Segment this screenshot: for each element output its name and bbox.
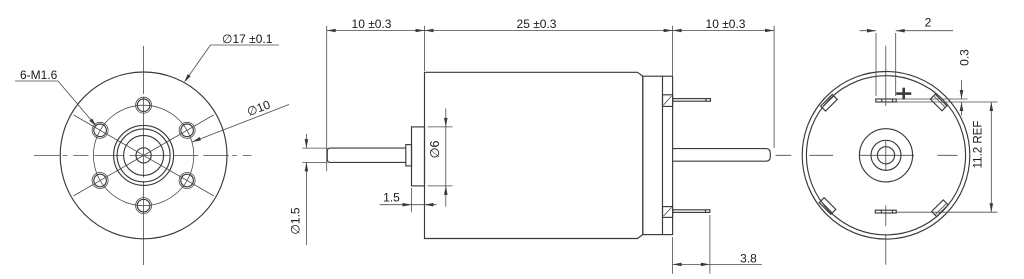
screw hole 30deg: [181, 124, 194, 137]
screw hole 150deg: [94, 124, 107, 137]
bottom terminal bracket: [663, 207, 673, 218]
svg-text:11.2 REF: 11.2 REF: [973, 121, 985, 169]
screw hole 330deg: [181, 174, 194, 187]
label D10 leader: [192, 105, 289, 143]
D1.5 dimension: [303, 147, 328, 149]
tab 316deg: [932, 200, 949, 217]
svg-text:∅17 ±0.1: ∅17 ±0.1: [222, 32, 273, 46]
top terminal slot: [876, 99, 896, 102]
bearing boss circle: [859, 129, 912, 182]
end cap: [643, 76, 673, 234]
top terminal bracket: [663, 95, 673, 107]
boss circle D6: [114, 125, 174, 185]
screw hole 270deg: [137, 199, 150, 212]
shaft hole circle: [877, 147, 894, 164]
svg-text:10 ±0.3: 10 ±0.3: [352, 17, 392, 31]
svg-text:2: 2: [925, 15, 932, 29]
bottom terminal slot: [875, 210, 896, 213]
0.3 dimension: [896, 98, 967, 100]
motor body: [425, 72, 643, 238]
diagonal centerline 30-210: [74, 115, 214, 196]
1.5 dimension: [411, 188, 413, 212]
tab 136deg: [821, 94, 838, 111]
svg-text:0.3: 0.3: [958, 49, 972, 66]
shaft collar: [406, 145, 412, 166]
plus polarity mark: [896, 92, 911, 95]
extension line cap face top: [672, 26, 674, 76]
extension line rear shaft tip: [773, 26, 775, 148]
vertical centerline: [885, 46, 887, 265]
svg-text:10 ±0.3: 10 ±0.3: [706, 17, 746, 31]
extension line shaft tip: [326, 26, 328, 171]
bottom terminal pin: [673, 210, 710, 213]
svg-text:3.8: 3.8: [740, 251, 757, 265]
11.2 REF dimension: [896, 211, 997, 213]
2 dimension: [875, 33, 877, 96]
end cap inner line: [662, 76, 664, 234]
boss inner ring: [117, 129, 170, 182]
svg-text:25 ±0.3: 25 ±0.3: [517, 17, 557, 31]
screw hole 90deg: [137, 99, 150, 112]
svg-text:6-M1.6: 6-M1.6: [20, 68, 58, 82]
extension line body front: [424, 26, 426, 71]
cap circle: [806, 76, 965, 235]
shaft circle D1.5: [136, 148, 151, 163]
diagonal centerline 150-330: [74, 115, 214, 196]
tab 48deg: [930, 94, 947, 111]
outer circle: [802, 72, 970, 240]
horizontal centerline: [34, 154, 252, 156]
svg-text:∅1.5: ∅1.5: [289, 207, 303, 234]
3.8 dimension: [672, 237, 674, 274]
top dimension line: [327, 30, 774, 32]
bearing ring: [124, 135, 164, 175]
front shaft: [327, 148, 406, 162]
rear shaft: [673, 149, 771, 162]
outer circle D17: [60, 72, 227, 239]
screw hole 210deg: [94, 174, 107, 187]
svg-text:1.5: 1.5: [383, 191, 400, 205]
tab 221deg: [819, 198, 836, 215]
vertical centerline: [143, 46, 145, 265]
svg-text:∅6: ∅6: [428, 141, 442, 159]
bearing boss D6: [412, 127, 425, 186]
top terminal pin: [673, 99, 711, 102]
D6 dimension: [428, 126, 453, 128]
bolt circle D10: [93, 105, 193, 205]
bearing circle: [871, 140, 901, 170]
centerline to rear view: [776, 154, 958, 156]
